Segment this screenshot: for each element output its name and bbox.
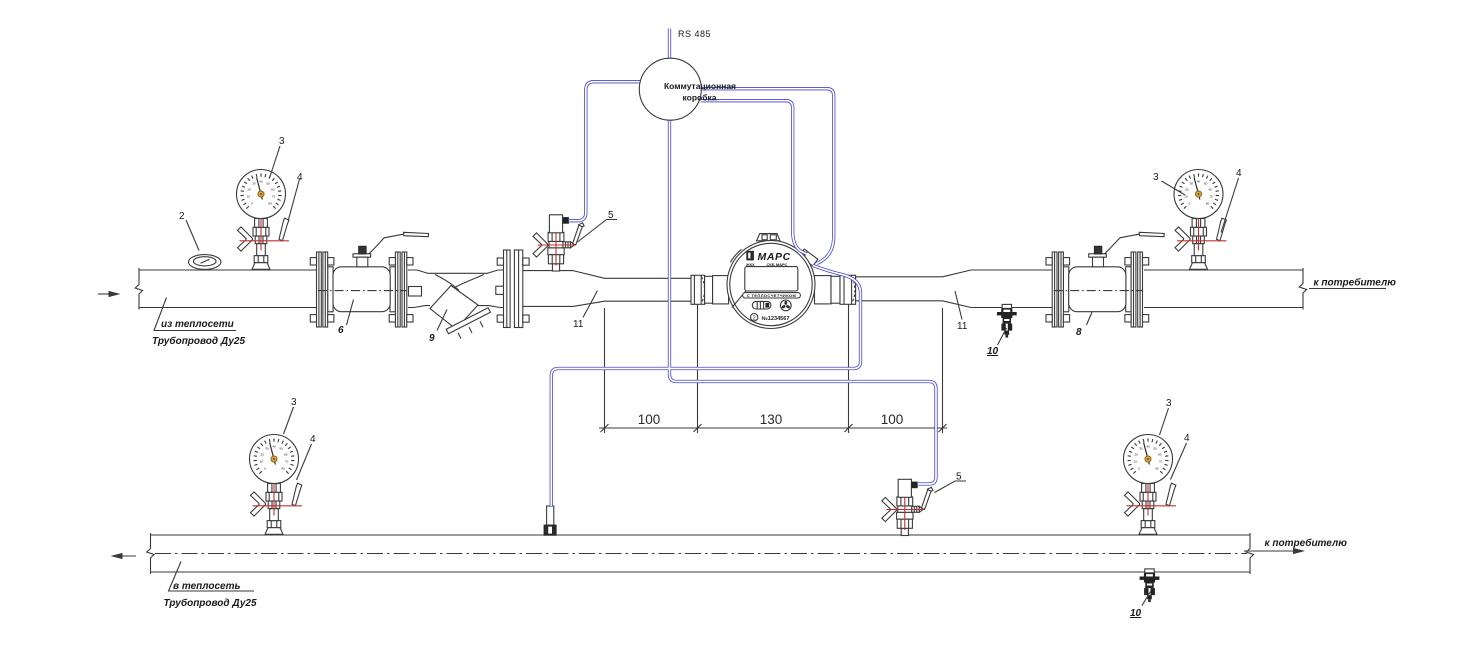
note "в теплосеть" [169,562,255,592]
manometer 3 + valve 4 top-left [237,170,290,270]
meter leader line inside [732,291,746,308]
meter inlet spool [705,276,713,303]
pipe end break left [135,268,142,310]
strainer end cap flange [446,308,490,334]
temperature sensor 5 on supply pipe [533,215,584,271]
dimension ticks [601,424,947,432]
label 3 top-left [270,146,281,178]
ball valve 6 [310,232,428,327]
label 3 bottom-right [1160,408,1169,435]
strainer diagonal leg (item 9) [430,286,478,330]
meter switch [752,301,771,309]
pipe return end break left [147,533,154,574]
flow arrow into supply [98,293,113,295]
svg-text:100: 100 [638,412,661,427]
svg-text:130: 130 [760,412,783,427]
svg-text:Коммутационная: Коммутационная [664,81,736,91]
svg-text:3: 3 [279,136,285,147]
flow arrow out of return [117,555,136,557]
svg-text:3: 3 [1153,172,1159,183]
svg-text:RS 485: RS 485 [678,29,711,39]
svg-text:4: 4 [310,434,316,445]
label 8 [1087,312,1093,325]
meter logo [746,251,754,261]
svg-text:10: 10 [987,346,999,357]
svg-text:к потребителю: к потребителю [1314,277,1397,289]
svg-text:5: 5 [956,472,962,483]
label 3 top-right [1162,181,1186,195]
svg-text:Трубопровод Ду25: Трубопровод Ду25 [152,335,245,347]
svg-text:СКБ МАРС: СКБ МАРС [767,262,788,267]
svg-text:2: 2 [753,315,756,321]
note "из теплосети" [154,298,236,331]
label 3 bottom-left [284,407,294,434]
meter serial no [751,314,758,321]
reducer left (item 11) [573,271,605,307]
svg-text:4: 4 [1184,433,1190,444]
meter LCD display [745,267,798,291]
label 4 bottom-right [1171,443,1187,480]
note "к потребителю" top [1309,288,1386,290]
label 11 right [955,291,962,320]
label 6 [347,300,354,326]
meter flange pair boss [496,286,505,294]
label 2 [186,220,199,251]
svg-text:к потребителю: к потребителю [1265,537,1348,549]
svg-text:8: 8 [1076,327,1082,338]
wire box to return sensor 5 [670,117,937,484]
svg-text:С ТЕПЛОСЧЕТЧИКОМ: С ТЕПЛОСЧЕТЧИКОМ [747,293,797,298]
pipe return end break right [1246,533,1253,574]
label 9 [437,310,447,331]
return temp pocket fitting [547,506,554,525]
svg-text:100: 100 [881,412,904,427]
wire box to meter gland A [701,89,834,264]
svg-text:3: 3 [1166,398,1172,409]
svg-text:11: 11 [957,321,968,332]
meter body circle [727,241,815,329]
pipe supply segment D (reduced) [605,278,692,301]
label 10 return [1142,592,1151,606]
label 10 supply [998,328,1007,345]
svg-text:3: 3 [291,397,297,408]
junction box [639,29,736,120]
svg-text:2: 2 [179,211,185,222]
label 4 top-left [289,179,300,220]
svg-text:9: 9 [429,333,435,344]
svg-text:6: 6 [338,325,344,336]
pipe supply segment B (strainer body) [408,270,504,308]
pipe supply segment A [139,270,317,308]
wire RS-485 riser [668,29,671,63]
extension line at reducer end x604.5 [604,308,606,433]
extension line at meter inlet x697.5 [697,305,699,434]
drain valve 10 on supply pipe [997,304,1017,337]
note "к потребителю" bottom with arrow [1244,550,1297,552]
label 4 bottom-left [297,444,312,480]
meter hinge ridge [730,249,741,262]
pipe supply segment C [523,271,573,307]
dimension line [599,427,947,429]
union nut meter outlet [840,275,856,304]
strainer drain boss left [409,287,422,297]
union nut meter inlet [691,275,705,304]
meter outlet spool [815,276,832,304]
pipe supply segment G [1144,270,1303,308]
svg-text:из теплосети: из теплосети [161,319,234,330]
thermowell item 2 [189,255,221,270]
wire supply sensor 5 to box [569,82,642,221]
svg-text:коробка: коробка [683,93,717,103]
meter cable gland [799,249,818,266]
label 5 return [935,481,967,493]
svg-text:5: 5 [608,210,614,221]
pipe supply segment F [971,270,1052,308]
strainer cover plate [428,272,488,274]
extension line at meter outlet x848.5 [848,305,850,434]
wire meter gland to return pocket [551,266,860,507]
svg-text:10: 10 [1130,608,1142,619]
svg-text:№1234567: №1234567 [762,316,790,322]
pipe supply segment E (reduced) [856,277,943,301]
strainer cap bolts [458,321,483,338]
meter label strip [743,293,801,298]
label 5 supply [578,220,618,243]
meter button [780,300,791,311]
pipe return axis dash-dot [155,553,1247,555]
manometer 3 + valve 4 bottom-right [1124,435,1177,535]
svg-text:4: 4 [297,172,303,183]
label 11 left [583,291,598,318]
drain valve 10 on return pipe [1140,569,1160,602]
strainer throat curves [435,275,484,292]
svg-text:в теплосеть: в теплосеть [173,581,240,592]
svg-text:Трубопровод Ду25: Трубопровод Ду25 [164,597,257,609]
extension line at right reducer x942.5 [942,308,944,433]
manometer 3 + valve 4 bottom-left [250,435,303,535]
pipe return top/bottom walls [151,535,1251,572]
svg-text:11: 11 [573,319,584,330]
reducer right (item 11) [943,270,972,308]
svg-text:4: 4 [1236,168,1242,179]
label 4 top-right [1221,178,1239,233]
pipe end break right [1299,268,1306,310]
ball valve 8 [1046,232,1164,327]
meter flange pair (after strainer) [504,250,511,328]
manometer 3 + valve 4 top-right [1174,170,1227,270]
heat meter МАРС (flow computer) [727,234,818,329]
wire box to meter gland B [701,101,807,254]
temperature sensor 5 on return pipe [882,479,933,535]
meter top cap [757,234,781,241]
